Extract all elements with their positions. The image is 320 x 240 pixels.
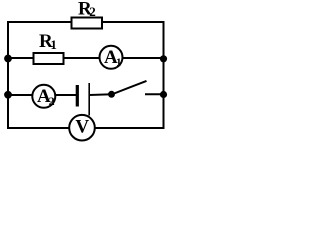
svg-text:2: 2 xyxy=(49,94,55,108)
svg-text:1: 1 xyxy=(116,56,122,68)
svg-text:1: 1 xyxy=(50,37,57,52)
svg-text:V: V xyxy=(75,116,89,137)
svg-text:2: 2 xyxy=(89,4,96,19)
